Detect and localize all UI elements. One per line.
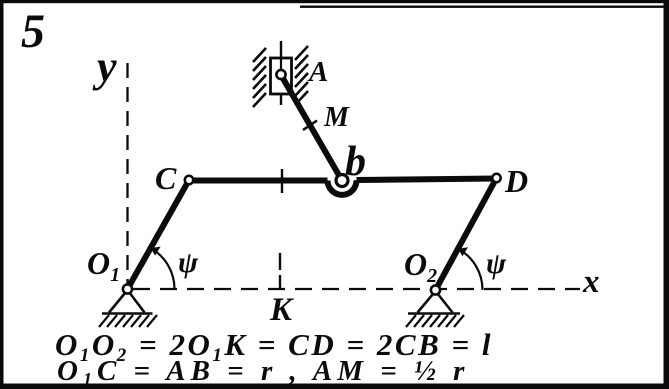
guide line inside slider above pin: [280, 58, 282, 70]
pivot pin O2: [431, 285, 440, 294]
slider guide left wall hatching: [253, 48, 266, 107]
svg-text:D: D: [504, 163, 528, 199]
pin b: [336, 175, 348, 187]
frame right: [664, 0, 669, 389]
link AB: [281, 75, 342, 181]
ground hatching at O1: [99, 315, 157, 327]
angle arc psi at O2: [458, 249, 483, 290]
ground hatching at O2: [406, 315, 464, 327]
svg-text:O1C = AB = r , AM = ½ r: O1C = AB = r , AM = ½ r: [57, 355, 469, 389]
svg-text:ψ: ψ: [486, 247, 507, 280]
svg-text:ψ: ψ: [178, 246, 199, 279]
slider guide right wall hatching: [295, 46, 308, 105]
frame top: [0, 0, 669, 3]
svg-text:x: x: [582, 264, 600, 300]
link O1C: [128, 180, 190, 289]
arrow of psi arc at O2: [458, 247, 468, 256]
center line tick through CD bar: [281, 169, 283, 193]
svg-text:M: M: [323, 102, 350, 133]
slider block: [271, 58, 292, 94]
svg-text:K: K: [269, 292, 294, 328]
x axis dashed line: [133, 288, 580, 290]
frame bottom: [0, 384, 669, 389]
bump arc around pin b: [328, 180, 357, 195]
angle arc psi at O1: [151, 248, 175, 289]
ground line at O2: [408, 312, 460, 314]
center line dashes at K: [279, 253, 281, 270]
ground line at O1: [102, 312, 153, 314]
slider guide line: [280, 41, 282, 105]
pivot O2 triangle: [418, 291, 453, 313]
pivot O1 triangle: [109, 290, 145, 313]
pin A: [276, 70, 285, 79]
pin C: [185, 176, 193, 184]
link CD right segment: [357, 179, 497, 181]
svg-text:C: C: [155, 160, 177, 196]
svg-text:b: b: [345, 139, 366, 185]
frame left: [0, 0, 4, 389]
link O2D: [436, 178, 497, 290]
y axis dashed line: [126, 63, 128, 285]
link CD left segment: [189, 178, 328, 184]
svg-text:A: A: [307, 56, 328, 88]
tick mark at M: [303, 121, 317, 131]
pivot pin O1: [123, 284, 132, 293]
arrow of psi arc at O1: [151, 247, 161, 256]
pin D: [492, 174, 500, 182]
svg-text:5: 5: [21, 5, 45, 58]
